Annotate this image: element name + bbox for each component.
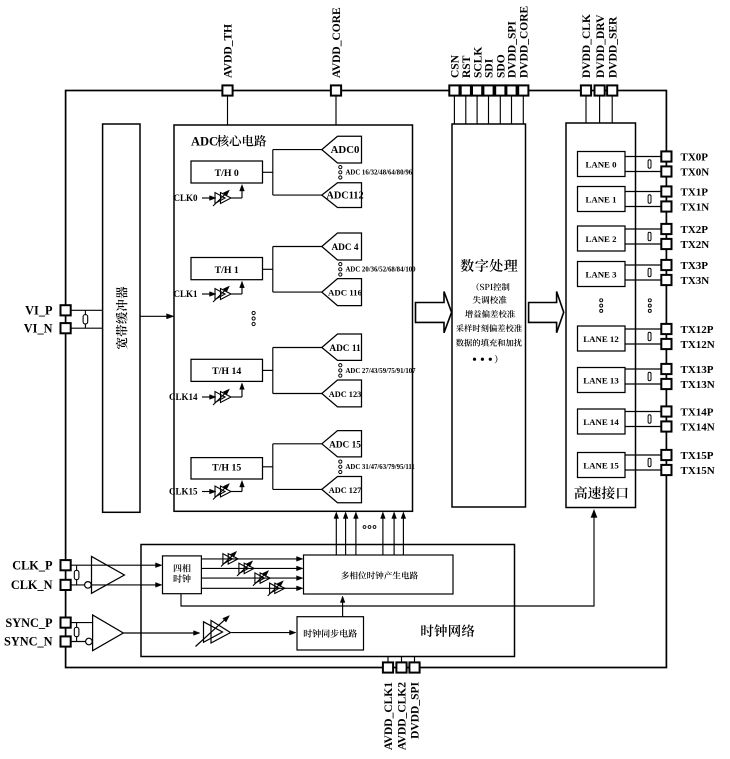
label 采样时刻偏差校准 [456, 324, 464, 332]
pin TX14P [661, 406, 671, 416]
svg-text:ADC 27/43/59/75/91/107: ADC 27/43/59/75/91/107 [346, 368, 417, 375]
svg-text:AVDD_CLK1: AVDD_CLK1 [383, 682, 395, 750]
svg-text:ADC 123: ADC 123 [329, 390, 362, 399]
svg-text:TX3P: TX3P [681, 260, 709, 272]
pin SCLK [472, 85, 482, 95]
driver LANE 14 [648, 415, 651, 423]
svg-text:AVDD_CLK2: AVDD_CLK2 [397, 682, 409, 750]
svg-text:LANE 14: LANE 14 [583, 417, 619, 427]
svg-text:ADC0: ADC0 [331, 144, 360, 156]
pin AVDD_CORE [331, 85, 341, 95]
wire CLK0 to T/H0 [231, 197, 242, 199]
ADC block ADC 127 [322, 477, 362, 503]
dots between ADC0 and ADC112 [339, 166, 342, 169]
wire pin AVDD_CORE [335, 91, 337, 126]
wire clock phase to ADC core 2 [355, 514, 357, 555]
svg-text:ADC 15: ADC 15 [329, 440, 361, 450]
wire CLK1 to T/H1 [231, 293, 242, 295]
svg-text:TX12N: TX12N [681, 339, 715, 351]
driver LANE 3 [648, 268, 651, 276]
svg-text:LANE 1: LANE 1 [585, 194, 616, 204]
ADC block ADC0 [322, 136, 362, 163]
block clock network (时钟网络) [141, 545, 515, 657]
svg-text:DVDD_DRV: DVDD_DRV [595, 14, 607, 78]
wire bus to ADC 123 [273, 393, 322, 395]
wire T/H1 to bus [263, 268, 273, 270]
delay cell phase 3 [270, 583, 280, 593]
pin TX2P [661, 224, 671, 234]
svg-text:SYNC_N: SYNC_N [4, 635, 53, 649]
block multi-phase clock generator (多相位时钟产生电路) [304, 555, 454, 594]
pin TX15N [661, 465, 671, 475]
delay cell phase 2 [255, 573, 265, 583]
wire T/H0 to bus [263, 171, 273, 173]
svg-text:LANE 15: LANE 15 [583, 460, 619, 470]
input buffer SYNC [93, 615, 124, 651]
lane block LANE 14 [578, 409, 626, 434]
lane block LANE 13 [578, 368, 626, 393]
wire SYNC_P [66, 622, 93, 624]
svg-text:AVDD_TH: AVDD_TH [223, 24, 235, 78]
label 增益偏差校准 [465, 310, 473, 318]
wire LANE 12 N [625, 343, 662, 345]
pin DVDD_SER [607, 85, 617, 95]
block ADC core (ADC核心电路) [174, 125, 413, 511]
pin TX0P [661, 151, 671, 161]
wire LANE 14 N [625, 426, 662, 428]
svg-text:LANE 12: LANE 12 [583, 334, 619, 344]
svg-text:T/H 14: T/H 14 [212, 366, 241, 377]
ADC block ADC 123 [322, 380, 362, 407]
wire delay to clock sync [231, 632, 292, 634]
wire buffer to ADC core [140, 315, 171, 317]
svg-text:ADC 4: ADC 4 [331, 243, 358, 253]
svg-text:ADC112: ADC112 [326, 191, 363, 202]
T/H block T/H 15 [191, 458, 263, 479]
block arrow ADC core to digital [416, 292, 452, 333]
svg-text:TX13P: TX13P [681, 364, 714, 376]
wire T/H15 to bus [263, 466, 273, 468]
wire LANE 13 N [625, 383, 662, 385]
wire pin SDI [488, 91, 490, 125]
wire clock phase to ADC core 3 [382, 514, 384, 555]
ADC block ADC 116 [322, 279, 362, 306]
pin TX12P [661, 324, 671, 334]
pin SYNC_N [61, 636, 71, 646]
wire pin AVDD_CLK1 bottom [387, 657, 389, 668]
svg-text:TX3N: TX3N [681, 275, 710, 287]
wire clock phase to ADC core 4 [393, 514, 395, 555]
svg-text:VI_P: VI_P [25, 304, 53, 318]
label ellipsis ) [473, 358, 476, 361]
wire LANE 14 P [625, 411, 662, 413]
svg-text:T/H 15: T/H 15 [212, 462, 241, 473]
delay cell phase 0 [223, 554, 233, 564]
dots between T/H rows [252, 311, 255, 314]
dots between ADC 15 and ADC 127 [339, 460, 342, 463]
wire pin RST [465, 91, 467, 125]
wire pin DVDD_SPI bottom [414, 657, 416, 668]
delay cell CLK14 [215, 392, 225, 403]
svg-text:TX1N: TX1N [681, 202, 710, 214]
lane block LANE 0 [578, 152, 626, 177]
wire bus vertical row 15 [272, 444, 274, 490]
svg-text:CLK_P: CLK_P [12, 558, 53, 572]
wire VI_N to buffer [66, 327, 103, 329]
svg-text:TX14P: TX14P [681, 407, 714, 419]
wire bus to ADC 116 [273, 291, 322, 293]
wire clock phase to ADC core 0 [335, 514, 337, 555]
wire CLK0 arrow [202, 197, 213, 199]
delay cell phase 1 [239, 563, 249, 573]
pin CLK_N [61, 580, 71, 590]
wire phase 3 [201, 587, 300, 589]
svg-text:CLK_N: CLK_N [11, 578, 53, 592]
wire LANE 2 N [625, 243, 662, 245]
resistor VI termination [84, 310, 86, 328]
wire clock sync to multiphase [342, 599, 344, 617]
dots between ADC 11 and ADC 123 [339, 364, 342, 367]
wire CLK15 arrow [202, 491, 213, 493]
wire bus to ADC 127 [273, 488, 322, 490]
pin TX0N [661, 166, 671, 176]
label (SPI控制 [477, 283, 479, 291]
pin DVDD_CORE [518, 85, 528, 95]
svg-text:SCLK: SCLK [472, 47, 484, 78]
pin VI_N [61, 323, 71, 333]
wire CLK14 arrow [202, 396, 213, 398]
pin TX12N [661, 339, 671, 349]
chip boundary [66, 91, 667, 668]
block clock sync (时钟同步电路) [297, 617, 364, 650]
wire bus to ADC112 [273, 194, 322, 196]
svg-text:AVDD_CORE: AVDD_CORE [331, 7, 343, 78]
lane block LANE 2 [578, 226, 626, 251]
driver LANE 15 [648, 458, 651, 466]
wire CLK_N [66, 584, 159, 586]
input buffer CLK [92, 556, 125, 593]
wire LANE 3 N [625, 279, 662, 281]
svg-text:SDI: SDI [484, 58, 496, 78]
dots clock phases [363, 526, 366, 529]
block four-phase clock (四相时钟) [163, 556, 202, 594]
dots lanes right column [648, 299, 651, 302]
svg-text:ADC 16/32/48/64/80/96: ADC 16/32/48/64/80/96 [346, 170, 413, 177]
ADC block ADC 11 [322, 334, 362, 360]
wire pin SDO [499, 91, 501, 125]
driver LANE 2 [648, 232, 651, 240]
wire bus vertical row 1 [272, 247, 274, 293]
pin TX3P [661, 260, 671, 270]
svg-text:TX0P: TX0P [681, 152, 709, 164]
svg-text:CLK0: CLK0 [173, 193, 198, 203]
wire pin SCLK [476, 91, 478, 125]
wire SYNC_N [66, 641, 86, 643]
delay cell SYNC [204, 622, 223, 643]
pin AVDD_CLK1 bottom [383, 662, 393, 672]
wire bus to ADC 4 [273, 246, 322, 248]
wire LANE 15 P [625, 454, 662, 456]
wire LANE 13 P [625, 368, 662, 370]
block digital processing (数字处理) [452, 124, 526, 507]
svg-text:CLK1: CLK1 [173, 289, 198, 299]
pin TX13P [661, 364, 671, 374]
wire CLK1 arrow [202, 293, 213, 295]
driver LANE 12 [648, 332, 651, 340]
wire LANE 2 P [625, 228, 662, 230]
wire pin DVDD_SER [611, 91, 613, 124]
wire pin CSN [453, 91, 455, 125]
wire pin DVDD_SPI [511, 91, 513, 125]
wire VI_P to buffer [66, 309, 103, 311]
svg-text:SYNC_P: SYNC_P [5, 616, 53, 630]
pin DVDD_SPI bottom [409, 662, 419, 672]
pin CLK_P [61, 560, 71, 570]
pin TX1P [661, 186, 671, 196]
wire CLK15 to T/H15 [231, 491, 242, 493]
wire phase 1 [201, 567, 300, 569]
lane block LANE 1 [578, 187, 626, 212]
wire sync delay input [123, 632, 196, 634]
svg-text:ADC 127: ADC 127 [329, 486, 362, 495]
wire phase 0 [201, 558, 300, 560]
ADC block ADC112 [322, 183, 362, 208]
svg-text:LANE 2: LANE 2 [585, 234, 617, 244]
pin TX14N [661, 421, 671, 431]
T/H block T/H 14 [191, 359, 263, 381]
pin SDI [483, 85, 493, 95]
wire pin AVDD_CLK2 bottom [401, 657, 403, 668]
pin AVDD_TH [222, 85, 232, 95]
block arrow digital to serdes [529, 292, 564, 333]
label 数字处理 [461, 259, 474, 272]
svg-text:DVDD_SPI: DVDD_SPI [507, 21, 519, 78]
wire LANE 12 P [625, 328, 662, 330]
wire CLK14 to T/H14 [231, 396, 242, 398]
svg-text:LANE 3: LANE 3 [585, 269, 617, 279]
svg-text:TX15N: TX15N [681, 465, 715, 477]
svg-text:TX2N: TX2N [681, 239, 710, 251]
label 时钟网络 [421, 625, 433, 637]
svg-text:ADC: ADC [191, 135, 218, 149]
delay cell CLK15 [215, 486, 225, 497]
svg-text:T/H 0: T/H 0 [215, 168, 239, 179]
wire bus vertical row 0 [272, 150, 274, 196]
svg-text:TX0N: TX0N [681, 167, 710, 179]
svg-text:VI_N: VI_N [24, 322, 53, 336]
pin DVDD_CLK [581, 85, 591, 95]
lane block LANE 15 [578, 453, 626, 478]
pin RST [461, 85, 471, 95]
driver LANE 0 [648, 160, 651, 168]
wire CLK_P [66, 564, 159, 566]
pin TX1N [661, 201, 671, 211]
wire LANE 1 P [625, 191, 662, 193]
ADC block ADC 15 [322, 431, 362, 457]
svg-text:CLK14: CLK14 [169, 392, 198, 402]
wire LANE 0 N [625, 171, 662, 173]
wire bus to ADC 11 [273, 347, 322, 349]
svg-text:TX14N: TX14N [681, 422, 715, 434]
wire clock to serdes [181, 513, 594, 607]
pin TX2N [661, 239, 671, 249]
pin SYNC_P [61, 618, 71, 628]
svg-text:ADC 20/36/52/68/84/100: ADC 20/36/52/68/84/100 [346, 267, 417, 274]
pin TX15P [661, 450, 671, 460]
svg-text:CSN: CSN [450, 54, 462, 78]
svg-text:DVDD_CORE: DVDD_CORE [519, 5, 531, 78]
label 数据的填充和加扰 [456, 339, 464, 347]
pin TX13N [661, 379, 671, 389]
svg-text:TX2P: TX2P [681, 224, 709, 236]
wire bus to ADC0 [273, 149, 322, 151]
delay cell CLK1 [215, 289, 225, 300]
lane block LANE 3 [578, 262, 626, 287]
wire clock phase to ADC core 5 [402, 514, 404, 555]
svg-text:LANE 13: LANE 13 [583, 375, 619, 385]
pin DVDD_SPI [506, 85, 516, 95]
svg-text:DVDD_SPI: DVDD_SPI [410, 681, 422, 738]
label 高速接口 [574, 486, 587, 499]
svg-text:RST: RST [461, 55, 473, 78]
T/H block T/H 0 [191, 161, 263, 183]
wire pin DVDD_DRV [599, 91, 601, 124]
svg-text:TX13N: TX13N [681, 379, 715, 391]
svg-text:ADC 31/47/63/79/95/111: ADC 31/47/63/79/95/111 [346, 464, 416, 471]
pin CSN [449, 85, 459, 95]
svg-text:T/H 1: T/H 1 [215, 265, 239, 276]
driver LANE 1 [648, 195, 651, 203]
wire phase 2 [201, 577, 300, 579]
wire T/H14 to bus [263, 369, 273, 371]
label 失调校准 [473, 296, 481, 304]
svg-text:DVDD_CLK: DVDD_CLK [581, 14, 593, 78]
block wideband buffer (宽带缓冲器) [103, 124, 140, 512]
driver LANE 13 [648, 372, 651, 380]
pin SDO [495, 85, 505, 95]
pin TX3N [661, 275, 671, 285]
svg-text:SDO: SDO [496, 54, 508, 78]
block high-speed interface (高速接口) [566, 123, 636, 508]
svg-text:DVDD_SER: DVDD_SER [607, 16, 619, 78]
wire bus vertical row 14 [272, 348, 274, 394]
dots lanes left column [600, 299, 603, 302]
T/H block T/H 1 [191, 258, 263, 280]
wire pin AVDD_TH [227, 91, 229, 126]
svg-text:CLK15: CLK15 [169, 487, 198, 497]
delay cell CLK0 [215, 193, 225, 204]
pin AVDD_CLK2 bottom [396, 662, 406, 672]
svg-text:TX15P: TX15P [681, 450, 714, 462]
svg-text:ADC 11: ADC 11 [329, 344, 361, 354]
svg-text:TX1P: TX1P [681, 187, 709, 199]
wire LANE 0 P [625, 156, 662, 158]
pin DVDD_DRV [595, 85, 605, 95]
wire pin DVDD_CLK [585, 91, 587, 124]
dots between ADC 4 and ADC 116 [339, 263, 342, 266]
ADC block ADC 4 [322, 233, 362, 260]
resistor CLK termination [76, 565, 78, 585]
svg-text:ADC 116: ADC 116 [328, 288, 363, 298]
wire clock phase to ADC core 1 [345, 514, 347, 555]
wire pin DVDD_CORE [522, 91, 524, 125]
lane block LANE 12 [578, 326, 626, 351]
wire bus to ADC 15 [273, 443, 322, 445]
svg-text:LANE 0: LANE 0 [585, 159, 617, 169]
pin VI_P [61, 305, 71, 315]
resistor SYNC termination [76, 623, 78, 642]
svg-text:TX12P: TX12P [681, 324, 714, 336]
wire LANE 1 N [625, 206, 662, 208]
wire LANE 15 N [625, 469, 662, 471]
wire LANE 3 P [625, 264, 662, 266]
